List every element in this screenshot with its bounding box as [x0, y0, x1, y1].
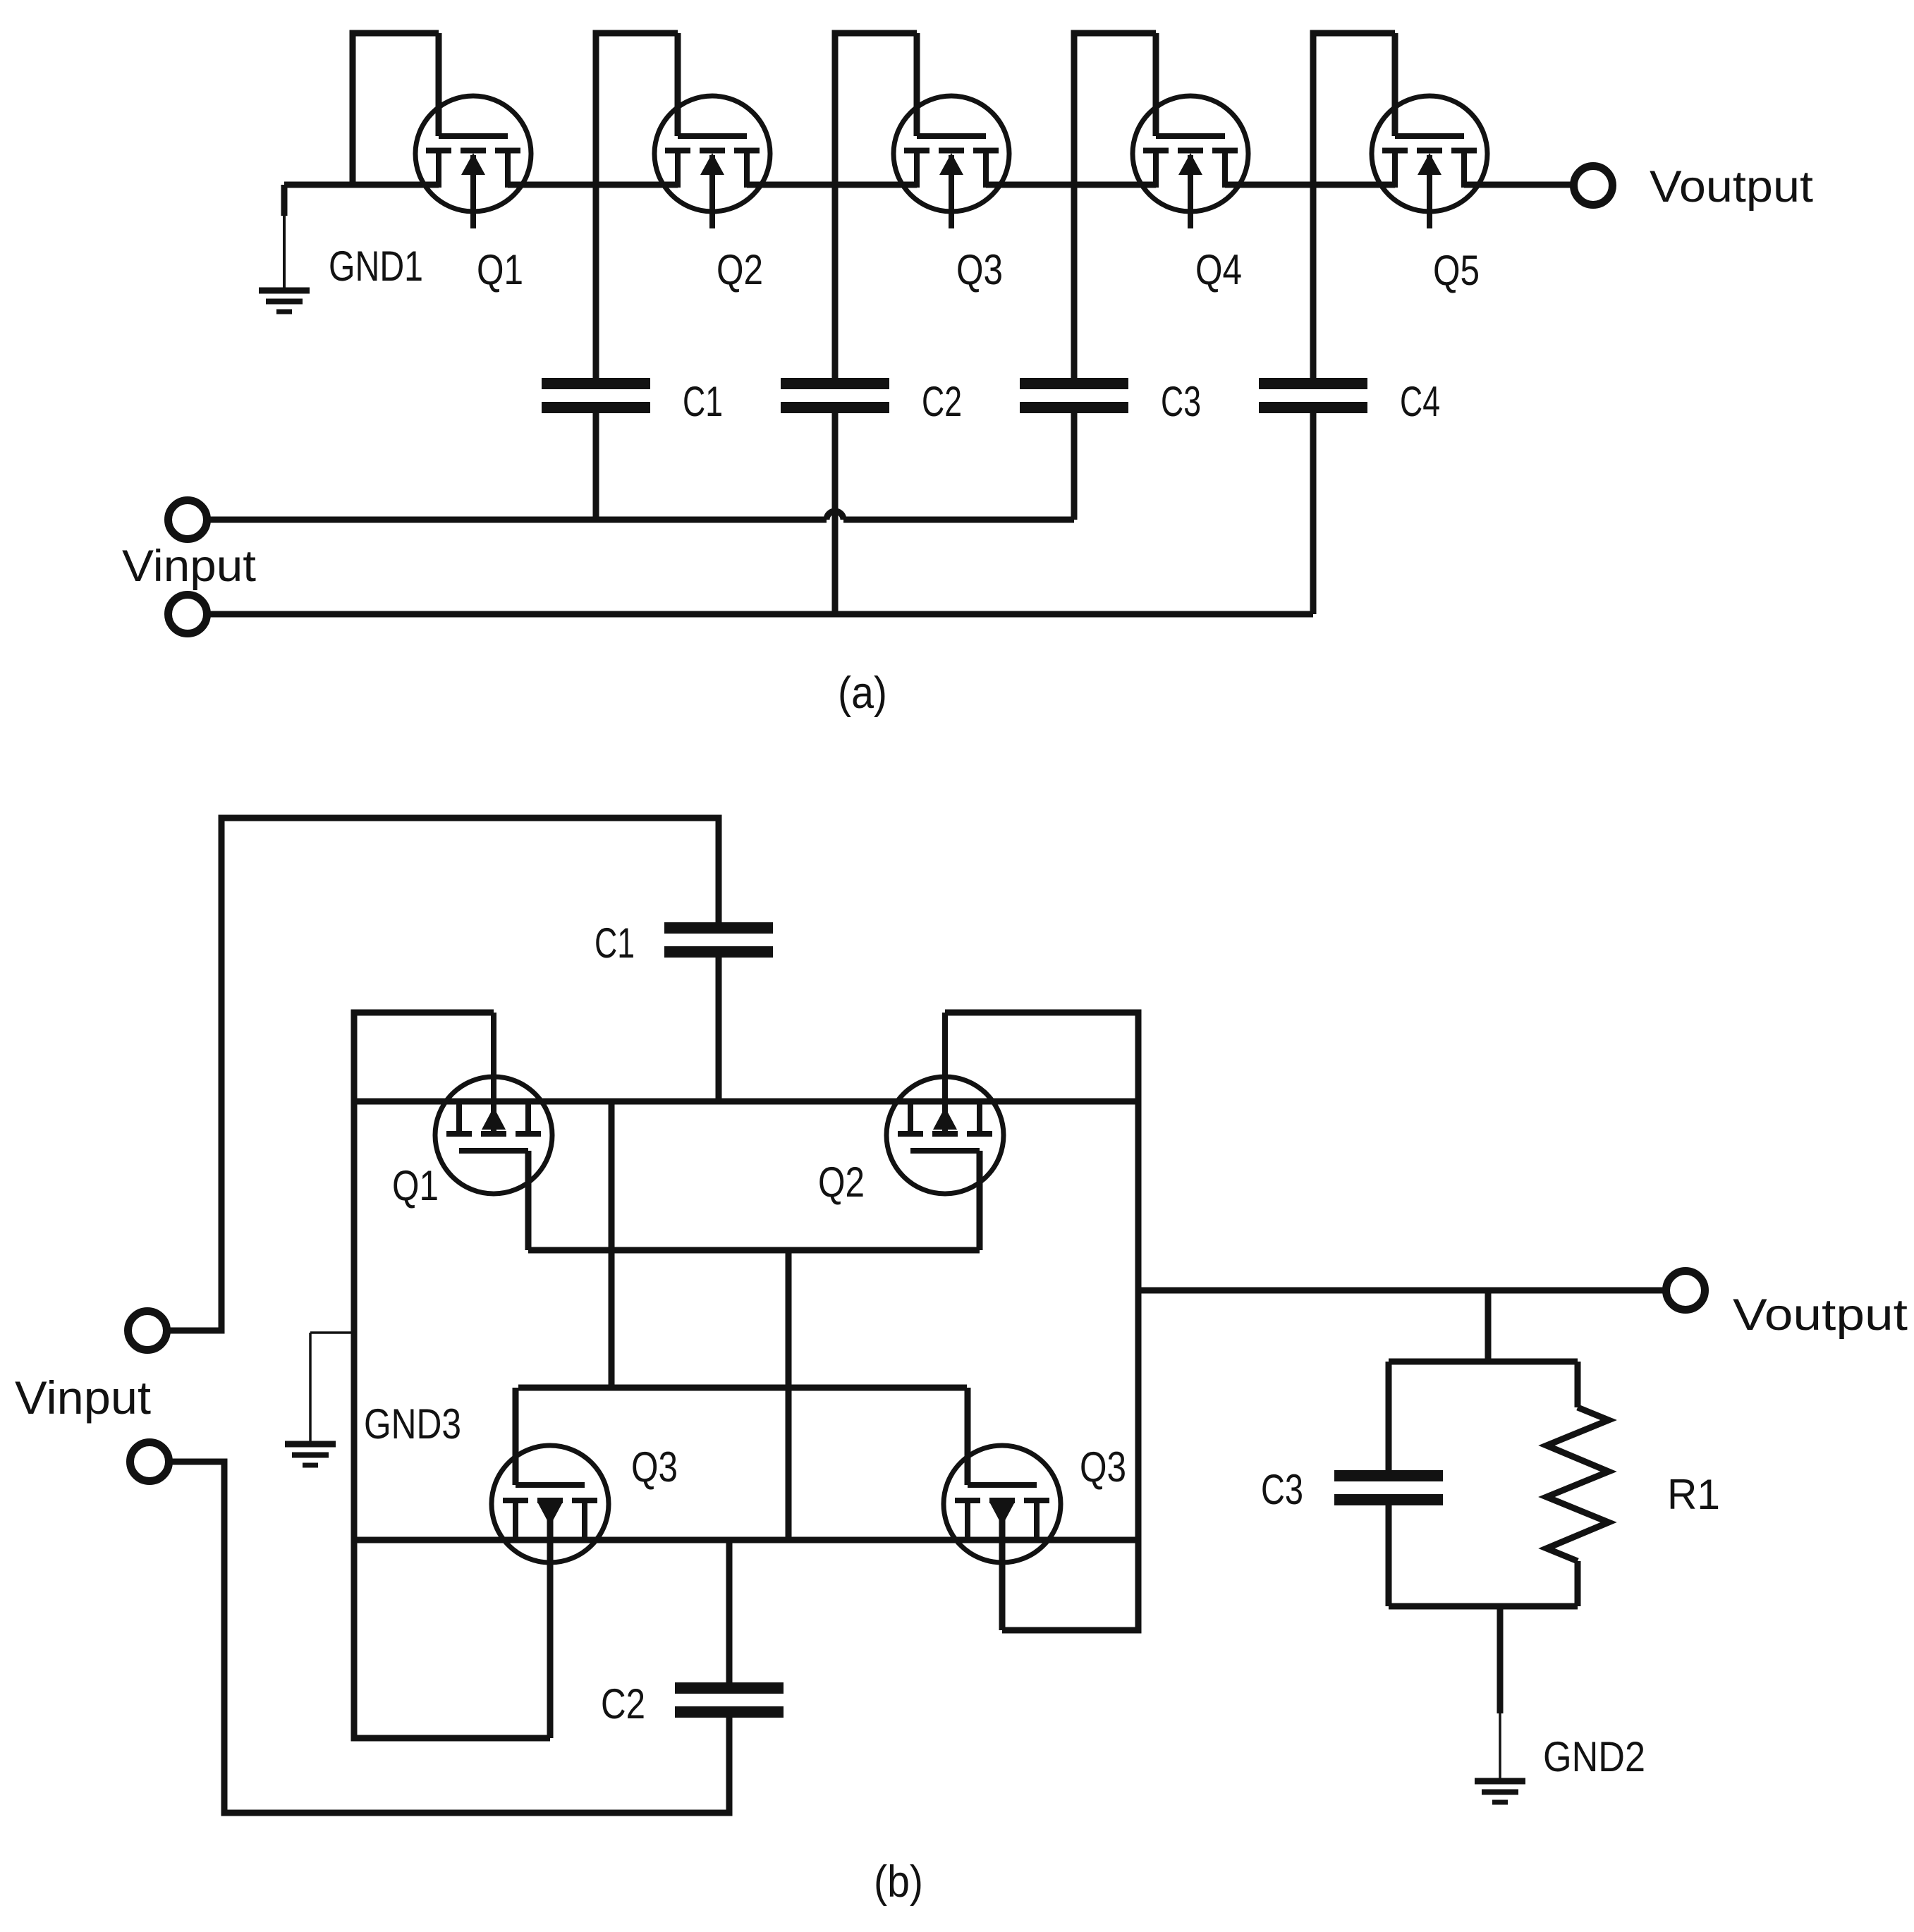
svg-text:Vinput: Vinput	[15, 1371, 151, 1424]
svg-text:Vinput: Vinput	[122, 542, 257, 591]
svg-text:GND1: GND1	[329, 243, 423, 290]
svg-text:Q3: Q3	[631, 1443, 678, 1491]
svg-text:C1: C1	[595, 919, 635, 967]
svg-text:(b): (b)	[874, 1857, 923, 1907]
svg-text:Q2: Q2	[717, 246, 763, 293]
svg-text:GND2: GND2	[1543, 1733, 1645, 1780]
svg-text:R1: R1	[1667, 1471, 1720, 1518]
svg-text:(a): (a)	[838, 668, 887, 718]
svg-text:C2: C2	[922, 378, 962, 425]
svg-text:C3: C3	[1261, 1466, 1303, 1513]
svg-text:Q3: Q3	[956, 246, 1003, 293]
svg-text:C3: C3	[1161, 378, 1201, 425]
svg-text:Q1: Q1	[477, 246, 523, 293]
svg-text:C4: C4	[1400, 378, 1440, 425]
svg-text:Q1: Q1	[392, 1162, 439, 1209]
svg-text:GND3: GND3	[364, 1400, 461, 1448]
svg-text:Q4: Q4	[1195, 246, 1242, 293]
svg-text:Q2: Q2	[818, 1158, 865, 1206]
svg-text:Q5: Q5	[1433, 247, 1480, 294]
svg-text:Voutput: Voutput	[1733, 1290, 1908, 1340]
svg-text:C1: C1	[683, 378, 723, 425]
svg-text:Q3: Q3	[1080, 1443, 1126, 1491]
svg-text:C2: C2	[601, 1680, 645, 1728]
svg-text:Voutput: Voutput	[1650, 162, 1814, 212]
